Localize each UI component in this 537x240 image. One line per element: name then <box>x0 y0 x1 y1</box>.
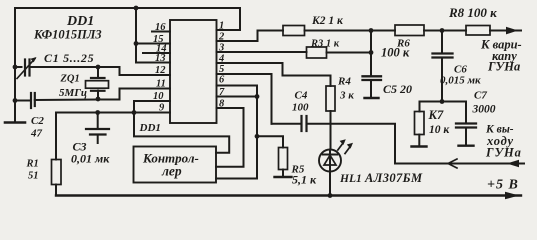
+5V rail arrow <box>505 192 519 200</box>
node C2 tap <box>13 98 18 103</box>
node LED rail <box>328 193 333 198</box>
node pin7 join <box>255 94 260 99</box>
svg-text:10: 10 <box>153 91 164 102</box>
wire pin14 stub <box>143 52 170 54</box>
capacitor C5 <box>363 75 382 77</box>
ground <box>365 97 379 99</box>
node R3 join <box>369 50 374 55</box>
svg-text:С2: С2 <box>31 115 44 127</box>
ground <box>275 176 292 178</box>
capacitor C3 <box>97 113 99 129</box>
svg-text:7: 7 <box>219 87 225 98</box>
wire R7 bottom <box>418 135 420 147</box>
capacitor C6 <box>441 31 443 54</box>
capacitor C7 <box>465 102 467 124</box>
arrow on GUN line <box>448 159 457 168</box>
wire pin10 <box>134 101 170 113</box>
capacitor C4 <box>300 116 302 131</box>
wire pin9 to R1 <box>56 112 170 114</box>
wire R6 to C6 node <box>424 30 466 32</box>
svg-text:R8 100 к: R8 100 к <box>448 5 497 20</box>
wire R4 to LED <box>330 111 332 150</box>
resistor R1 <box>52 160 62 185</box>
wire pin5 down <box>217 74 272 124</box>
svg-text:12: 12 <box>155 65 166 76</box>
resistor R8 <box>466 26 490 36</box>
wire pin6 wrap <box>216 86 257 179</box>
node pin9/10 <box>132 110 137 115</box>
svg-text:С4: С4 <box>295 90 308 102</box>
svg-text:9: 9 <box>159 103 165 114</box>
svg-text:47: 47 <box>30 128 43 140</box>
svg-text:8: 8 <box>219 99 225 110</box>
ground <box>459 144 474 146</box>
svg-text:С1 5...25: С1 5...25 <box>44 51 94 65</box>
svg-text:+5 В: +5 В <box>487 178 519 193</box>
svg-text:С5 20: С5 20 <box>383 82 412 96</box>
svg-text:100: 100 <box>292 102 309 114</box>
resistor R3 <box>307 47 327 58</box>
svg-text:КФ1015ПЛ3: КФ1015ПЛ3 <box>33 28 102 42</box>
svg-text:ГУНа: ГУНа <box>487 60 520 74</box>
resistor R6 <box>395 25 424 36</box>
pin number labels <box>153 21 225 114</box>
svg-text:2: 2 <box>218 32 225 43</box>
svg-text:ZQ1: ZQ1 <box>60 74 80 85</box>
svg-text:5,1 к: 5,1 к <box>292 173 317 187</box>
svg-text:6: 6 <box>219 75 225 86</box>
svg-text:3000: 3000 <box>472 104 496 116</box>
wire R7 top <box>419 102 421 112</box>
svg-text:1: 1 <box>219 21 224 32</box>
node pin15 <box>134 41 139 46</box>
controller box <box>134 147 217 183</box>
wire to R5 <box>257 136 283 147</box>
svg-text:5МГц: 5МГц <box>59 87 87 99</box>
LED HL1 <box>319 150 341 172</box>
node R2/R6 <box>369 28 374 33</box>
wire C1 left <box>15 66 22 68</box>
wire pin16 stub <box>152 31 170 33</box>
wire R3 to node <box>327 52 372 54</box>
svg-text:13: 13 <box>155 53 166 64</box>
svg-text:R4: R4 <box>337 76 351 88</box>
wire rail to pins 15,13 <box>135 8 137 63</box>
wire C1 to crystal node <box>30 66 99 68</box>
wire pin7 <box>217 96 258 98</box>
wire R1 top <box>55 113 57 160</box>
capacitor C1 <box>24 60 26 76</box>
wire pins9/10 to controller <box>134 113 229 153</box>
node crystal bottom <box>96 97 101 102</box>
wire pin11 jog <box>98 89 170 100</box>
svg-text:лер: лер <box>161 164 182 179</box>
wire pin8 wrap <box>216 108 244 167</box>
wire R7 C7 link <box>420 101 467 103</box>
wire crystal top lead <box>97 67 99 78</box>
resistor R5 <box>279 148 288 170</box>
node C6 top <box>440 28 445 33</box>
svg-text:3: 3 <box>218 43 224 54</box>
svg-text:0,01 мк: 0,01 мк <box>71 152 110 166</box>
node rail tap <box>134 6 139 11</box>
svg-text:R1: R1 <box>26 159 39 170</box>
node C3 tap <box>95 110 100 115</box>
wire pin15 <box>136 43 170 45</box>
wire LED to rail <box>329 172 331 196</box>
svg-text:HL1: HL1 <box>339 173 362 185</box>
svg-text:3 к: 3 к <box>339 90 354 102</box>
wire R1 bottom <box>55 185 57 196</box>
svg-text:К7: К7 <box>428 108 444 122</box>
wire top ground rail <box>15 8 240 30</box>
svg-text:К2 1 к: К2 1 к <box>311 15 344 27</box>
wire pin2 to R2 <box>217 31 284 42</box>
svg-text:16: 16 <box>155 22 166 33</box>
svg-text:С7: С7 <box>474 90 487 102</box>
wire pin3 to R3 <box>217 51 307 53</box>
wire R2 to node <box>305 30 372 32</box>
wire node to C5 <box>370 31 372 77</box>
wire node to R6 <box>371 30 395 32</box>
svg-text:R3 1 к: R3 1 к <box>310 39 340 50</box>
wire left vertical ground bus <box>14 8 16 122</box>
svg-text:0,015 мк: 0,015 мк <box>440 75 481 87</box>
node crystal top <box>96 65 101 70</box>
ground <box>412 145 427 147</box>
crystal ZQ1 <box>91 77 105 79</box>
node R5 branch <box>255 134 260 139</box>
ground <box>5 121 25 124</box>
wire C4 right to GUN output line <box>307 124 522 164</box>
svg-text:10 к: 10 к <box>429 124 450 136</box>
node C6 bottom <box>440 99 445 104</box>
wire C2 to crystal bottom node <box>35 99 98 102</box>
svg-text:4: 4 <box>218 54 224 65</box>
svg-text:100 к: 100 к <box>381 46 410 60</box>
capacitor C2 <box>30 93 32 108</box>
resistor R4 <box>326 86 335 111</box>
wire C2 left <box>15 100 29 102</box>
wire pin4 to R4 <box>217 63 331 86</box>
svg-text:5: 5 <box>219 64 224 75</box>
IC DD1 KF1015PL3 body <box>170 20 217 123</box>
svg-text:DD1: DD1 <box>139 122 161 134</box>
node C1 tap <box>13 65 18 70</box>
svg-text:ГУНа: ГУНа <box>485 146 522 160</box>
wire R8 out with arrow <box>490 30 521 32</box>
wire R5 bottom <box>282 170 284 177</box>
svg-text:АЛ307БМ: АЛ307БМ <box>364 171 423 185</box>
wire C4 left <box>272 123 301 125</box>
wire pin12 jog <box>98 67 170 75</box>
LED arrows <box>338 143 343 150</box>
wire +5V bottom rail <box>56 194 521 196</box>
resistor R7 <box>415 112 425 135</box>
svg-text:11: 11 <box>156 79 166 90</box>
wire pin13 <box>136 62 170 64</box>
resistor R2 <box>283 26 305 36</box>
svg-text:51: 51 <box>28 171 39 182</box>
